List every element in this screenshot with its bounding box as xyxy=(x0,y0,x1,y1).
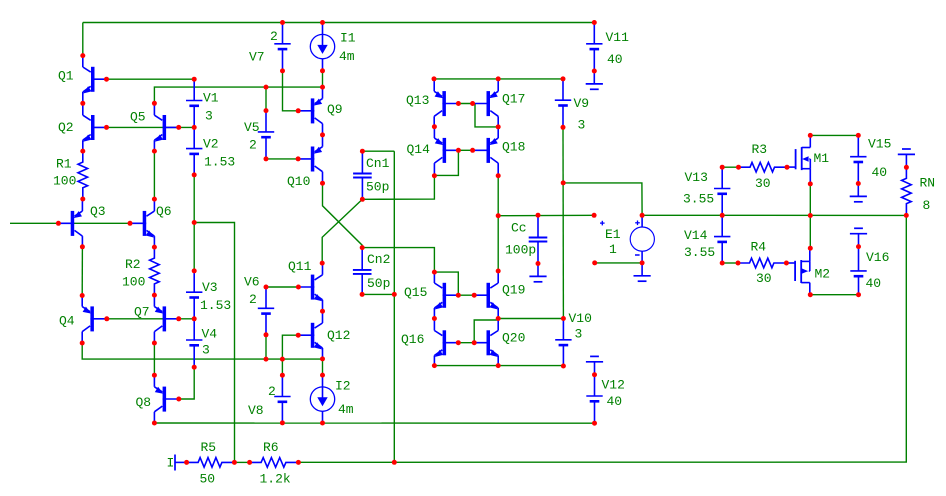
value V2 xyxy=(204,155,235,170)
svg-text:Q12: Q12 xyxy=(327,328,350,343)
junction n45 at (322,22) xyxy=(320,20,325,25)
svg-text:Q16: Q16 xyxy=(401,332,424,347)
junction n13 at (179,319) xyxy=(176,316,181,321)
label Q8 xyxy=(136,395,152,410)
battery V13 xyxy=(714,167,730,215)
label V9 xyxy=(574,96,590,111)
junction n102 at (738,263) xyxy=(736,261,741,266)
junction n19 at (194,271) xyxy=(192,268,197,273)
value R3 xyxy=(755,176,771,191)
junction n48 at (322,135) xyxy=(320,132,325,137)
junction n55 at (362,151) xyxy=(360,149,365,154)
junction n6 at (82,343) xyxy=(80,341,85,346)
junction n93 at (594,215) xyxy=(592,213,597,218)
transistor Q10 xyxy=(298,135,322,183)
junction n40 at (298,111) xyxy=(296,108,301,113)
value RN xyxy=(923,198,931,213)
wire Q10 base net xyxy=(266,158,298,160)
svg-text:2: 2 xyxy=(249,292,257,307)
svg-text:M1: M1 xyxy=(814,151,830,166)
svg-text:Q13: Q13 xyxy=(406,93,429,108)
wire X wire A xyxy=(323,183,363,247)
battery V1 xyxy=(186,79,202,127)
junction n92 at (538,264) xyxy=(536,261,541,266)
resistor R5 xyxy=(187,458,235,468)
value I2 xyxy=(338,402,354,417)
resistor R6 xyxy=(250,458,299,468)
svg-text:V10: V10 xyxy=(569,311,592,326)
svg-text:Q10: Q10 xyxy=(287,174,310,189)
svg-text:E1: E1 xyxy=(605,227,621,242)
junction n96 at (642,263) xyxy=(640,260,645,265)
junction n0 at (83,56) xyxy=(80,53,85,58)
label Q17 xyxy=(502,92,525,107)
svg-text:2: 2 xyxy=(270,29,278,44)
svg-text:Q6: Q6 xyxy=(156,204,172,219)
label Q15 xyxy=(404,285,427,300)
wire Cn2 top net xyxy=(362,248,434,273)
current source I1 xyxy=(310,23,334,71)
svg-text:V9: V9 xyxy=(574,96,590,111)
svg-text:Q3: Q3 xyxy=(90,204,106,219)
svg-text:100: 100 xyxy=(122,275,145,290)
svg-text:1: 1 xyxy=(609,242,617,257)
junction n113 at (906,167) xyxy=(904,165,909,170)
value V10 xyxy=(575,327,583,342)
junction n34 at (266,287) xyxy=(264,285,269,290)
junction n65 at (434,318) xyxy=(432,316,437,321)
transistor Q13 xyxy=(434,80,458,128)
label Q7 xyxy=(134,305,150,320)
svg-text:Cc: Cc xyxy=(511,221,527,236)
svg-text:100: 100 xyxy=(53,174,76,189)
svg-text:V7: V7 xyxy=(249,50,265,65)
svg-text:3: 3 xyxy=(578,118,586,133)
junction n66 at (434,366) xyxy=(432,363,437,368)
junction n107 at (810,248) xyxy=(808,246,813,251)
wire Q12-I2 link xyxy=(322,359,324,375)
value Cc xyxy=(505,243,536,258)
transistor Q15 xyxy=(434,271,458,319)
junction n97 at (722,167) xyxy=(720,165,725,170)
junction n112 at (858,295) xyxy=(856,292,861,297)
junction n108 at (810,295) xyxy=(808,292,813,297)
wire V6 riser xyxy=(265,335,267,359)
battery V9 xyxy=(555,79,571,127)
junction n103 at (786,263) xyxy=(784,261,789,266)
transistor Q17 xyxy=(474,80,498,128)
label Q20 xyxy=(502,331,525,346)
label V14 xyxy=(684,228,708,243)
label E1 xyxy=(605,227,621,242)
ground E1 xyxy=(634,263,651,281)
value V11 xyxy=(607,52,623,67)
value R6 xyxy=(260,472,291,487)
junction n31 at (266,111) xyxy=(264,108,269,113)
junction n50 at (322,263) xyxy=(320,261,325,266)
transistor Q14 xyxy=(434,126,458,174)
junction n104 at (810,135) xyxy=(808,133,813,138)
value V7 xyxy=(270,29,278,44)
junction n69 at (458,150) xyxy=(456,148,461,153)
label R2 xyxy=(125,257,141,272)
junction n117 at (250,462) xyxy=(247,460,252,465)
label Q19 xyxy=(502,283,525,298)
svg-text:Q14: Q14 xyxy=(407,142,431,157)
svg-text:Q11: Q11 xyxy=(288,259,312,274)
junction n58 at (362,294) xyxy=(360,292,365,297)
label Q12 xyxy=(327,328,350,343)
battery V4 xyxy=(186,319,202,368)
junction n33 at (298,159) xyxy=(296,156,301,161)
ground V15 xyxy=(850,184,867,202)
junction n99 at (787,167) xyxy=(785,165,790,170)
svg-text:Q5: Q5 xyxy=(130,110,146,125)
svg-text:Q19: Q19 xyxy=(502,283,525,298)
junction n86 at (563,366) xyxy=(561,364,566,369)
label V11 xyxy=(606,30,630,45)
junction n12 at (179,127) xyxy=(176,125,181,130)
svg-text:R2: R2 xyxy=(125,257,141,272)
label Q1 xyxy=(58,69,74,84)
svg-text:Q2: Q2 xyxy=(58,120,74,135)
svg-text:40: 40 xyxy=(866,276,882,291)
junction n71 at (458,295) xyxy=(456,293,461,298)
transistor Q9 xyxy=(298,87,322,135)
label Cn1 xyxy=(366,156,390,171)
junction n116 at (234,462) xyxy=(232,460,237,465)
junction n17 at (194,175) xyxy=(192,172,197,177)
junction n2 at (83,151) xyxy=(80,149,85,154)
svg-text:1.53: 1.53 xyxy=(200,298,231,313)
junction n75 at (498,79) xyxy=(496,76,501,81)
label Q16 xyxy=(401,332,424,347)
wire V9-V10 column xyxy=(562,127,564,318)
svg-text:V15: V15 xyxy=(868,137,891,152)
label I2 xyxy=(335,379,351,394)
wire Q18-Q19 column xyxy=(497,176,499,271)
svg-text:V13: V13 xyxy=(685,170,708,185)
junction n79 at (498,271) xyxy=(496,269,501,274)
transistor Q18 xyxy=(474,126,498,174)
junction n76 at (498,127) xyxy=(496,124,501,129)
wire M2 source link xyxy=(810,294,858,296)
battery V6 xyxy=(258,287,274,335)
junction n5 at (82,296) xyxy=(80,293,85,298)
svg-text:Q4: Q4 xyxy=(59,314,75,329)
svg-text:8: 8 xyxy=(923,198,931,213)
wire Q11 base net xyxy=(266,286,298,288)
label R5 xyxy=(201,440,217,455)
label R6 xyxy=(263,440,279,455)
junction n53 at (322,375) xyxy=(320,373,325,378)
svg-text:I: I xyxy=(167,456,175,471)
wire negative rail xyxy=(154,422,594,424)
wire Cn1 bottom net xyxy=(362,176,434,200)
label V15 xyxy=(868,137,891,152)
junction n74 at (474,343) xyxy=(472,340,477,345)
value I1 xyxy=(339,49,355,64)
wire upper mirror rail xyxy=(434,78,563,80)
value V14 xyxy=(684,245,715,260)
junction n56 at (362,199) xyxy=(360,197,365,202)
wire M1 drain link xyxy=(810,134,858,136)
junction n44 at (298,335) xyxy=(296,333,301,338)
wire emitter bus xyxy=(434,365,563,367)
junction n43 at (282,423) xyxy=(280,420,285,425)
svg-text:2: 2 xyxy=(268,384,276,399)
capacitor Cn2 xyxy=(353,248,372,295)
svg-text:Q18: Q18 xyxy=(502,140,525,155)
svg-text:V1: V1 xyxy=(203,91,219,106)
value V3 xyxy=(200,298,231,313)
input tie xyxy=(175,455,187,471)
junction n30 at (266,87) xyxy=(264,85,269,90)
label V6 xyxy=(244,275,260,290)
junction n118 at (298,462) xyxy=(296,460,301,465)
value V16 xyxy=(866,276,882,291)
junction n38 at (282,22) xyxy=(280,20,285,25)
junction n14 at (179,399) xyxy=(176,397,181,402)
svg-text:RN: RN xyxy=(920,176,936,191)
label Q13 xyxy=(406,93,429,108)
value R5 xyxy=(200,472,216,487)
label I1 xyxy=(340,31,356,46)
junction n115 at (187,462) xyxy=(184,460,189,465)
wire input net xyxy=(10,222,130,224)
wire Cn1 top link xyxy=(362,150,394,152)
junction n51 at (322,311) xyxy=(320,309,325,314)
transistor Q11 xyxy=(298,263,322,311)
junction n8 at (106,127) xyxy=(104,125,109,130)
junction n67 at (458,104) xyxy=(456,101,461,106)
wire Q17 diode hook xyxy=(475,104,498,127)
svg-text:Q8: Q8 xyxy=(136,395,152,410)
wire feedback tap xyxy=(194,223,234,463)
svg-text:V16: V16 xyxy=(866,250,889,265)
wire M2 drain link xyxy=(809,216,811,249)
junction n81 at (498,366) xyxy=(496,363,501,368)
svg-text:30: 30 xyxy=(755,176,771,191)
current source I2 xyxy=(310,375,334,423)
wire V14 link xyxy=(722,262,738,264)
label M1 xyxy=(814,151,830,166)
junction n70 at (473,150) xyxy=(470,148,475,153)
junction n42 at (282,375) xyxy=(280,373,285,378)
junction n28 at (154,375) xyxy=(152,373,157,378)
junction n90 at (594,423) xyxy=(592,421,597,426)
svg-text:1.53: 1.53 xyxy=(204,155,235,170)
svg-text:V6: V6 xyxy=(244,275,260,290)
transistor Q20 xyxy=(474,319,498,367)
transistor Q19 xyxy=(474,271,498,319)
wire R5-R6 link xyxy=(234,461,249,463)
svg-text:50: 50 xyxy=(200,472,216,487)
junction n101 at (722,263) xyxy=(720,261,725,266)
junction n87 at (594,22) xyxy=(592,20,597,25)
label M2 xyxy=(815,267,831,282)
ground V12 xyxy=(586,356,603,374)
label V4 xyxy=(202,327,218,342)
label Q3 xyxy=(90,204,106,219)
value R2 xyxy=(122,275,145,290)
label V1 xyxy=(203,91,219,106)
label Q11 xyxy=(288,259,312,274)
battery V14 xyxy=(714,215,730,263)
junction n54 at (322,423) xyxy=(320,421,325,426)
junction n60 at (394,462) xyxy=(392,460,397,465)
label RN xyxy=(920,176,936,191)
junction n105 at (810,184) xyxy=(808,181,813,186)
junction n4 at (82,247) xyxy=(80,244,85,249)
transistor Q6 xyxy=(130,199,154,247)
wire M1 source link xyxy=(809,184,811,216)
svg-text:V3: V3 xyxy=(202,280,218,295)
transistor Q1 xyxy=(83,55,107,103)
label V7 xyxy=(249,50,265,65)
junction n3 at (83,199) xyxy=(80,197,85,202)
battery V11 xyxy=(586,23,602,72)
svg-text:40: 40 xyxy=(607,394,623,409)
value Cn1 xyxy=(366,180,389,195)
source E1 xyxy=(600,215,654,263)
value R4 xyxy=(756,271,772,286)
svg-text:Q20: Q20 xyxy=(502,331,525,346)
resistor R1 xyxy=(78,151,88,199)
junction n29 at (154,423) xyxy=(152,421,157,426)
junction n111 at (858,247) xyxy=(856,244,861,249)
junction n37 at (266,359) xyxy=(264,357,269,362)
svg-text:V4: V4 xyxy=(202,327,218,342)
svg-text:Cn2: Cn2 xyxy=(367,252,390,267)
svg-text:3: 3 xyxy=(575,327,583,342)
junction n100 at (722,215) xyxy=(720,213,725,218)
ground Cc xyxy=(529,264,546,282)
wire V2-V3 link xyxy=(193,175,195,271)
value V1 xyxy=(205,109,213,124)
svg-text:100p: 100p xyxy=(505,243,536,258)
value V4 xyxy=(202,343,210,358)
svg-text:I2: I2 xyxy=(335,379,351,394)
svg-text:R1: R1 xyxy=(56,157,72,172)
wire Q3-Q4 link xyxy=(81,247,83,296)
junction n27 at (154,343) xyxy=(152,341,157,346)
junction n109 at (858,135) xyxy=(856,133,861,138)
label V10 xyxy=(569,311,592,326)
battery V12 xyxy=(586,375,602,424)
ground RN xyxy=(898,149,915,167)
svg-text:V2: V2 xyxy=(203,137,219,152)
junction n21 at (194,367) xyxy=(192,365,197,370)
junction n59 at (394,294) xyxy=(392,292,397,297)
transistor Q2 xyxy=(83,104,107,152)
svg-text:3: 3 xyxy=(205,109,213,124)
junction n78 at (498,216) xyxy=(496,213,501,218)
junction n82 at (563,79) xyxy=(561,76,566,81)
junction n61 at (434,79) xyxy=(432,76,437,81)
battery V3 xyxy=(186,271,202,319)
svg-text:R4: R4 xyxy=(751,240,767,255)
junction n95 at (595,263) xyxy=(592,260,597,265)
wire X wire B xyxy=(322,199,362,263)
wire E1 minus input link xyxy=(595,262,642,264)
label Cc xyxy=(511,221,527,236)
transistor Q4 xyxy=(82,295,106,343)
junction n39 at (282,71) xyxy=(280,68,285,73)
junction n9 at (107,319) xyxy=(104,316,109,321)
svg-text:Q15: Q15 xyxy=(404,285,427,300)
wire V5 riser xyxy=(265,87,267,111)
svg-text:50p: 50p xyxy=(367,276,390,291)
junction n106 at (810,216) xyxy=(808,213,813,218)
junction n20 at (194,319) xyxy=(192,316,197,321)
svg-text:Q1: Q1 xyxy=(58,69,74,84)
svg-text:V8: V8 xyxy=(248,403,264,418)
battery V8 xyxy=(274,375,290,423)
junction n83 at (563,127) xyxy=(561,125,566,130)
ground V16 xyxy=(850,228,867,246)
junction n57 at (362,248) xyxy=(360,245,365,250)
svg-text:R3: R3 xyxy=(752,142,768,157)
svg-text:V12: V12 xyxy=(602,378,625,393)
svg-text:I1: I1 xyxy=(340,31,356,46)
value E1 xyxy=(609,242,617,257)
wire Q15-Q19 base net xyxy=(458,294,474,296)
wire Q14 diode hook xyxy=(434,150,458,175)
svg-text:50p: 50p xyxy=(366,180,389,195)
resistor R3 xyxy=(739,162,788,172)
label R3 xyxy=(752,142,768,157)
junction n36 at (266,335) xyxy=(264,332,269,337)
label Q2 xyxy=(58,120,74,135)
junction n114 at (906,215) xyxy=(904,213,909,218)
svg-text:40: 40 xyxy=(607,52,623,67)
value R1 xyxy=(53,174,76,189)
label Q6 xyxy=(156,204,172,219)
wire Q15 diode hook xyxy=(434,272,458,295)
junction n98 at (738,167) xyxy=(736,165,741,170)
junction n26 at (154,295) xyxy=(152,293,157,298)
junction n35 at (298,287) xyxy=(296,285,301,290)
wire output tap to E1 xyxy=(498,214,594,216)
svg-text:V11: V11 xyxy=(606,30,630,45)
junction n63 at (434,176) xyxy=(432,173,437,178)
junction n15 at (194,79) xyxy=(192,77,197,82)
svg-text:Q17: Q17 xyxy=(502,92,525,107)
wire Q13-Q17 base net xyxy=(458,103,475,105)
transistor Q12 xyxy=(298,311,322,359)
wire Q14-Q18 base net xyxy=(458,149,472,151)
svg-text:40: 40 xyxy=(872,165,888,180)
junction n24 at (154,199) xyxy=(152,197,157,202)
wire output net xyxy=(298,215,906,462)
wire V13 link xyxy=(722,166,738,168)
junction n84 at (563,183) xyxy=(561,180,566,185)
label Q4 xyxy=(59,314,75,329)
junction n88 at (594,71) xyxy=(592,69,597,74)
battery V5 xyxy=(258,111,274,159)
svg-text:3.55: 3.55 xyxy=(683,192,714,207)
junction n91 at (538,215) xyxy=(536,213,541,218)
junction n73 at (458,343) xyxy=(456,340,461,345)
svg-text:4m: 4m xyxy=(339,49,355,64)
svg-text:1.2k: 1.2k xyxy=(260,472,291,487)
transistor Q16 xyxy=(434,319,458,367)
label Q5 xyxy=(130,110,146,125)
label V8 xyxy=(248,403,264,418)
junction n94 at (642,215) xyxy=(640,213,645,218)
junction n41 at (282,359) xyxy=(280,357,285,362)
